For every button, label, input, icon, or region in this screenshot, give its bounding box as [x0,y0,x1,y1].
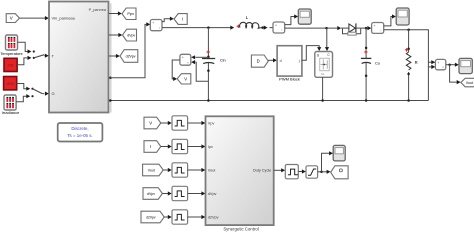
subsystem PV panel block [49,2,111,113]
wire diode to current measurement I3 [361,26,372,30]
goto tag d2Vpv [120,50,138,63]
wire constant 1000 to switch [17,84,31,91]
wire V tag to rate transition [161,121,172,125]
rate transition V [172,116,188,130]
wire top rail right [384,28,429,100]
svg-text:dVpv: dVpv [208,192,217,196]
svg-text:Vpv: Vpv [208,122,215,126]
subsystem PWM Block [277,46,302,82]
svg-text:dVpv: dVpv [147,192,155,196]
port label d2Vpv [208,216,219,220]
svg-text:d2Vpv: d2Vpv [146,216,156,220]
svg-text:dVpv: dVpv [127,34,135,38]
wire inductor to current measurement I2 [261,26,273,30]
wire bottom rail [109,99,429,102]
wire V1 to goto V [172,60,180,81]
wire Temperature to switch [18,42,32,53]
port label G [52,91,55,96]
wire V2 to goto Vout [450,65,461,85]
diode D1 [337,23,360,35]
capacitor Cin [202,58,226,64]
wire to IGBT collector [325,28,329,51]
wire rail to V2 plus [428,60,435,64]
svg-text:PWM Block: PWM Block [279,77,300,82]
saturation block [306,166,318,178]
svg-text:L: L [246,15,249,20]
port label Duty Cycle [253,169,271,173]
constant 1000 [4,77,17,90]
wire rail to V2 minus [428,65,435,69]
port label Vpv [208,122,215,126]
port label P_panneau [89,8,107,12]
wire V tag to PV block [20,16,49,20]
port label Vout [208,169,217,173]
wire PV out2 to dVpv [109,33,123,37]
wire rate transition to controller dVpv [188,191,206,195]
svg-text:Temperature: Temperature [0,51,23,56]
svg-text:Vout: Vout [208,169,217,173]
from tag I (control input) [144,141,161,153]
node IGBT collector tap [325,27,328,30]
svg-text:Ts = 1e-05 s.: Ts = 1e-05 s. [67,133,92,138]
rate transition I [172,139,188,153]
svg-text:Irradiance: Irradiance [2,110,21,115]
rate transition dVpv [172,186,188,200]
svg-text:Synergetic Control: Synergetic Control [223,227,258,232]
wire saturation output node [318,170,331,174]
wire top rail left [162,26,233,29]
wire Cin plus to V1 [191,55,208,59]
svg-text:d2Vpv: d2Vpv [126,55,136,59]
port label Ipv [208,145,213,149]
wire PV plus terminal to current measurement [109,22,150,79]
svg-text:Vout: Vout [148,169,155,173]
goto tag dVpv [123,29,137,41]
signal builder Irradiance [2,95,21,115]
svg-text:Ipv: Ipv [208,145,213,149]
svg-text:V: V [149,121,152,126]
wire V2 output node [446,63,459,67]
rate transition Vout [172,163,188,177]
svg-text:): ) [299,59,300,63]
wire I2 to scope IL [285,14,298,24]
svg-text:S1: S1 [321,72,325,76]
port label Vin_panneau [52,16,76,21]
wire rate transition to controller I [188,144,206,148]
polarity mark Co [364,50,367,53]
powergui Discrete annotation [58,123,103,142]
scope Vout [459,58,472,73]
wire rate transition to controller V [188,121,206,125]
svg-text:I: I [182,17,183,22]
wire rate transition to controller Vout [188,168,206,172]
svg-text:Vin_panneau: Vin_panneau [52,16,76,21]
svg-text:+: + [275,23,277,27]
svg-text:R: R [415,60,418,65]
from tag D [251,55,268,67]
wire rate transition to saturation [298,169,306,173]
svg-text:Ppv: Ppv [127,11,134,16]
svg-text:V: V [184,76,187,81]
port label T [52,54,55,59]
svg-text:Vout: Vout [466,81,473,85]
wire Co branch [365,28,368,100]
polarity mark Cin [207,50,210,53]
label Synergetic Control [223,227,258,232]
from tag V (control input) [144,117,161,129]
wire Duty Cycle to rate transition [274,168,285,172]
current measurement I3 [372,23,384,34]
goto tag Ppv [122,8,136,20]
port label dVpv [208,192,217,196]
resistor R [405,30,418,101]
wire I1 to goto I [162,17,174,22]
svg-text:Duty Cycle: Duty Cycle [253,169,271,173]
rate transition d2Vpv [172,210,188,224]
manual switch G [31,88,48,98]
svg-text:+: + [182,56,184,60]
wire Vout tag to rate transition [163,168,172,172]
svg-text:P_pannea: P_pannea [89,8,107,12]
subsystem Synergetic Control block [206,116,274,225]
svg-text:Co: Co [375,60,380,65]
IGBT S1 [315,52,333,78]
svg-text:+: + [437,61,439,65]
svg-text:V: V [10,16,13,21]
from tag Vout (control input) [143,164,164,176]
svg-text:+: + [152,21,154,25]
wire PWM to IGBT gate [302,46,321,61]
voltage measurement V1 [180,54,191,65]
wire top rail middle [285,27,340,29]
wire d2Vpv tag to rate transition [164,215,172,219]
goto tag D (duty) [331,166,348,179]
scope IL [298,9,311,24]
svg-text:Discrete,: Discrete, [71,126,88,131]
svg-text:1000: 1000 [6,82,14,86]
svg-text:+: + [374,24,376,28]
wire dVpv tag to rate transition [162,191,171,195]
svg-text:g: g [317,53,319,57]
voltage measurement V2 [435,59,445,69]
capacitor Co [361,58,380,65]
svg-text:d: d [280,59,282,63]
goto tag Vout [461,78,474,87]
inductor L [240,15,261,28]
wire node to scope duty [322,151,334,172]
scope Duty [333,145,345,161]
wire Cin minus to V1 [191,60,208,81]
svg-text:Cin: Cin [220,58,226,63]
from tag dVpv (control input) [143,188,162,200]
polarity mark inductor [230,25,240,30]
wire I tag to rate transition [161,144,172,148]
svg-text:298: 298 [8,64,14,68]
goto tag V [177,74,191,84]
scope Iout [396,8,409,25]
rate transition duty [285,165,298,179]
svg-text:G: G [52,91,55,96]
current measurement I2 [273,22,285,33]
svg-text:D: D [257,59,260,64]
manual switch T [33,50,49,59]
wire Irradiance to switch [16,94,30,102]
wire PV out1 to Ppv [109,11,122,15]
signal builder Temperature [0,35,23,56]
from tag V (PV input voltage) [6,14,19,23]
current measurement I1 [150,20,162,31]
wire rate transition to controller d2Vpv [188,215,206,219]
wire D tag to PWM block [268,58,277,62]
svg-text:I: I [150,144,151,149]
wire Cin branch [207,28,210,101]
wire constant 298 to switch [17,56,31,65]
svg-text:d2Vpv: d2Vpv [208,216,219,220]
constant 298 [4,58,17,71]
wire PV out3 to d2Vpv [109,54,120,58]
wire I3 to scope Iout [384,14,396,26]
from tag d2Vpv (control input) [141,211,164,223]
wire IGBT emitter to bottom rail [322,77,324,100]
goto tag I [174,14,187,25]
